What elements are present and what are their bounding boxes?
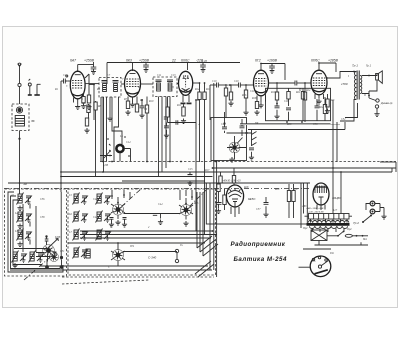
svg-text:22: 22 [171,59,176,63]
wire S2 bottom dashes [62,276,214,278]
svg-text:R23: R23 [329,99,335,102]
wire V1 pins [74,98,83,105]
selenium rectifier row [305,214,353,220]
ground V2 cathode [130,102,135,107]
resistor R16 [243,85,248,115]
wire diag bundle [195,236,218,277]
svg-text:+250В: +250В [139,59,150,63]
wire V4 pins [257,96,266,103]
svg-text:R4: R4 [96,88,101,91]
resistor R24 [299,83,307,122]
contact ticks rotor A [111,204,125,213]
wire volume to AF verticals [213,83,215,270]
resistor R5 [84,118,89,133]
wire B+ down right [333,100,337,168]
resistor R4 [87,104,90,118]
svg-text:Тр 2: Тр 2 [353,221,359,225]
resistor R15 [229,85,232,100]
coil group L3 (left col 3) [17,229,33,241]
chassis bar jack 1 [28,94,32,96]
coil group L9 [96,193,112,205]
capacitor C36 [216,203,222,214]
wire bus lower 2 [80,234,216,236]
svg-text:R20: R20 [286,123,292,126]
svg-text:Пр2: Пр2 [346,228,352,231]
mech link S2a [122,189,142,207]
resistor R26b [232,168,235,186]
wire bus lower 1 [80,230,213,232]
capacitor S2a sub 1 [109,218,114,228]
wire right edge vertical [380,162,396,172]
svg-text:C28: C28 [284,100,289,103]
svg-text:I: I [347,75,349,78]
IF transformer T2 can (dashed) [153,77,177,97]
ground speaker terminals [374,112,379,117]
svg-text:R13: R13 [205,88,211,91]
wire V4 plate [269,82,296,84]
ground R15 [228,101,233,106]
svg-text:ПЧ: ПЧ [129,245,134,248]
switch box bottom [303,248,331,250]
junction dot rotor bottom 1 [45,259,49,269]
svg-text:+250В: +250В [84,59,95,63]
switch tone contacts [249,130,257,160]
svg-text:6Г2: 6Г2 [255,59,261,63]
resistor R14 [224,85,227,118]
ground R2 [81,104,86,109]
capacitor decoupling C27 [269,64,275,74]
resistor R29 [287,184,290,218]
speaker Gr1 [376,71,383,84]
ground volume pot [229,157,234,162]
terminal pickup (2) [175,259,178,262]
ground L3 [17,242,22,247]
svg-text:C32: C32 [341,118,346,121]
title line 1 [231,241,286,248]
svg-text:C31: C31 [60,250,65,253]
svg-text:C44: C44 [158,203,163,206]
svg-text:C22: C22 [221,123,226,126]
wire bottom bus 1 [40,265,208,267]
fuse box [311,230,327,241]
svg-text:L2: L2 [14,212,18,215]
ground V1 cathode [75,104,80,109]
tube V7 30Ц6С rectifier [313,183,329,205]
svg-text:6,3В: 6,3В [103,164,108,167]
wire pickup leads [123,252,177,260]
wire transformer down [340,103,358,121]
wire T1 sec down [107,97,112,121]
left tuning block inner loop [11,196,61,269]
svg-text:Балтика М-254: Балтика М-254 [234,256,287,263]
contact ticks rotor B [179,205,193,214]
tube V6 6Е5С magic eye [226,185,243,207]
coil group L1 (left col 1) [17,193,33,205]
mech link dashes bottom [62,280,149,284]
wire bottom bus 2 [10,269,212,271]
wire plug link [366,204,370,211]
capacitor S2a sub 2 [122,218,127,228]
wire V1 plate right [85,83,99,85]
svg-text:C19: C19 [212,80,217,83]
capacitor C28 [274,104,279,120]
capacitor C23 on rail [187,172,192,186]
capacitor C9 [139,100,144,118]
capacitor decoupling C4 [91,62,97,74]
capacitor C32a [45,235,49,245]
wire volume mid [223,122,251,133]
coil group L11 [96,229,112,241]
AC plug [370,201,387,219]
ground R3 [86,105,91,110]
rail chassis dashed [100,161,396,163]
wire eye pins [231,207,239,217]
svg-text:R10: R10 [148,100,154,103]
svg-text:6А7: 6А7 [70,59,76,63]
mechanical link arrow [24,252,56,280]
svg-text:R5: R5 [81,102,86,105]
label x700 [340,82,348,86]
wire left block links [14,204,48,252]
wire antenna filter down [19,131,21,193]
resistor R20 [287,88,290,106]
label Тр1 [352,64,358,68]
resistor R13 [203,83,206,235]
coil group L8 [73,247,89,259]
wire rotorA feeds [111,190,130,199]
svg-text:R17: R17 [204,169,210,172]
potentiometer R17 volume [227,136,247,160]
junction dot antenna [18,138,20,140]
svg-text:C21: C21 [250,90,255,93]
svg-text:ЗФ: ЗФ [31,119,35,123]
svg-text:6Е5С: 6Е5С [248,197,256,201]
capacitor C28b [286,108,291,121]
rail AVC [61,176,213,178]
ground bar V3 (2) [187,103,192,105]
label +30В [226,181,241,183]
wire osc coil staircase 2 [114,101,119,162]
wire osc section [89,85,94,121]
terminal pickup (1) [175,249,178,252]
rail band-switch upper edge [122,180,205,182]
IF T1 secondary LC [113,81,119,92]
wire AVC long vertical [195,100,197,231]
svg-text:C42: C42 [93,216,98,219]
svg-text:C24: C24 [126,141,131,144]
coil group L2 (left col 2) [17,211,33,223]
left tuning block dashed box [5,189,67,276]
capacitor C29 [315,99,320,121]
wire right bundle verticals [197,192,203,256]
wire V5 plate to transformer [327,72,354,79]
tick marks dial [107,136,130,156]
resistor R12 [198,83,201,162]
wire V2 plate [140,83,153,85]
svg-text:-24В +130В +25В: -24В +130В +25В [306,207,324,210]
left tuning block inner loop 2 [13,200,42,265]
resistor R19 [275,83,278,104]
wire V3 pins down [183,95,189,102]
wire double line below tone box [240,124,340,126]
svg-text:Вк1: Вк1 [363,238,368,241]
switch plug blade [362,215,372,224]
label Тр2 [353,221,359,225]
IF T2 primary LC [156,80,162,91]
wire speaker return [369,81,377,99]
svg-text:Сд: Сд [330,251,334,255]
switch wafer S2a [113,197,124,219]
svg-text:КПЕ: КПЕ [54,236,61,239]
svg-text:А1: А1 [10,194,15,197]
junction dot rotor bottom 2 [60,256,64,269]
label +250В (2) [139,59,150,63]
resistor R21 [301,88,304,120]
svg-text:C13: C13 [171,74,176,77]
tube V4 6Г2 AF preamp [254,70,269,96]
tube V3 6Х6С detector [179,71,193,95]
resistor R27 [217,184,220,203]
capacitor C30 coupling [295,81,311,86]
svg-text:Гр 1: Гр 1 [366,64,371,68]
capacitor C16 [164,123,169,139]
label 6Х6С [181,59,190,63]
svg-text:+285В: +285В [328,59,339,63]
jack Гн2 bracket [37,84,41,94]
svg-text:R14: R14 [226,84,232,87]
oscillator coil L0 core [116,145,123,152]
svg-text:Д: Д [171,86,174,89]
resistor R3 [87,95,90,103]
label 30Ц6С [332,196,342,200]
svg-text:+160В: +160В [267,59,278,63]
resistor R10 [145,97,148,163]
resistor R23 cathode [325,94,330,114]
svg-text:C37: C37 [256,208,261,211]
tone control box [266,88,331,120]
resistor R26a [219,172,222,183]
capacitor C21 [222,112,227,133]
capacitor decoupling C12 [143,63,149,73]
wire T1 to V2 [121,83,125,85]
switch wafer S2b [181,198,192,220]
svg-text:Тр 1: Тр 1 [352,64,358,68]
wire +285V rail segment 4 [319,63,336,72]
svg-text:C38: C38 [40,216,45,219]
label Сд [330,251,334,255]
label 6П6С [311,59,320,63]
svg-text:127: 127 [333,209,338,212]
svg-text:ТВ: ТВ [245,132,248,135]
resistor R30 [292,184,295,218]
wire bias net [168,123,201,130]
coil group L4b bottom [29,251,45,263]
wire dial verticals [101,101,107,172]
resistor R18 [255,102,258,109]
wire V2 pins [128,97,137,105]
middle block dashed box [68,189,216,275]
wire rotor feeds left [36,249,50,257]
variable capacitor C31 rotor [43,245,59,262]
tiny component labels layer [10,60,368,269]
capacitor C33 [153,214,163,225]
resistor R11b [166,97,169,123]
IF transformer T1 can (dashed) [99,78,121,98]
svg-text:Пр1: Пр1 [302,227,308,230]
svg-text:Динам.гр: Динам.гр [380,101,393,105]
wire NFB below tone box [240,123,331,125]
label 6К3 [126,59,132,63]
svg-text:R22: R22 [318,106,324,109]
capacitor C22 [240,119,245,136]
svg-text:L6: L6 [68,213,72,216]
ground bar V3 (1) [181,103,186,105]
capacitor C14 [164,117,167,119]
wire osc coil staircase 1 [112,101,122,144]
wire mains lower [315,242,369,245]
capacitor C37 [263,197,268,217]
switch mains blade [337,231,344,237]
wire left block stubs [30,204,48,262]
svg-text:II: II [363,94,366,97]
svg-text:R7: R7 [123,98,128,101]
svg-text:C36: C36 [40,198,45,201]
svg-text:R26: R26 [193,202,199,205]
coil group L10 [96,211,112,223]
svg-text:R24: R24 [305,89,311,92]
junction dot speaker [368,95,370,97]
tube V2 6К3 IF amplifier [125,70,141,97]
svg-text:R6: R6 [97,105,102,108]
resistor R2 [82,94,85,104]
label Динам гр [380,101,393,105]
tube V5 6П6С output [311,70,327,95]
svg-text:6Х6С: 6Х6С [181,59,190,63]
coil group L6 [73,211,89,223]
svg-text:C25: C25 [188,168,193,171]
label 6Е5С [248,197,256,201]
label 6Г2 [255,59,261,63]
label +285В [328,59,339,63]
svg-text:L7: L7 [68,231,72,234]
wire T2 out [177,83,179,85]
svg-text:6К3: 6К3 [126,59,132,63]
left tuning block outer loop [8,192,63,272]
antenna A1 [18,63,22,66]
wire rect pins [317,205,325,211]
svg-text:R28: R28 [243,186,249,189]
capacitor C15 [176,120,178,124]
terminal Динам гр (1) [369,98,379,102]
ground S2a [115,220,120,225]
ground V4 [258,103,263,108]
svg-text:C40: C40 [93,198,98,201]
wire bus lower 3 [80,237,211,239]
svg-text:L5: L5 [119,135,123,138]
wire T2 verticals down [158,97,160,178]
wire power section verticals [332,168,334,214]
label +160В [267,59,278,63]
ground L4 [12,263,17,268]
svg-text:+110 +130 5,6В: +110 +130 5,6В [308,212,324,214]
svg-text:Радиоприемник: Радиоприемник [231,241,286,248]
svg-text:6П6С: 6П6С [311,59,320,63]
rail B+ mid [61,168,392,172]
resistor R6 [94,101,97,177]
title line 2 [234,256,287,263]
svg-text:R16: R16 [241,94,247,97]
ground R18 [254,110,259,115]
arrow tuning link [48,239,59,249]
label +250В (1) [84,59,95,63]
resistor R22 [323,97,326,121]
wire fuse taps [313,229,325,246]
wire T1 down [102,97,104,162]
svg-text:C20: C20 [234,80,239,83]
coil rect L8b [86,249,90,258]
wire V5 pins [315,94,324,99]
tuning indicator box [206,183,307,224]
wire antenna lead-in [19,66,21,83]
rail band-switch shaft (dash-dot) [4,188,310,190]
resistor R7 [126,101,129,109]
wire V1 screen [85,74,89,95]
wire detector node [193,82,200,84]
tube V1 6А7 converter [70,71,85,99]
svg-text:R29: R29 [274,188,280,191]
wire +250V rail segment 3 [261,64,285,81]
ground L1 [17,206,22,211]
transformer T3 output [354,71,362,104]
capacitor decoupling C18 [200,63,206,73]
svg-text:R11: R11 [176,104,182,107]
label АФ [23,183,27,186]
junction dots layer [19,62,370,244]
coil group L5 [73,193,89,205]
transformer T4 power [307,219,350,232]
svg-text:ВК: ВК [255,122,259,125]
wire +250V rail segment 2 [107,63,240,85]
ground L2 [17,224,22,229]
contact ticks rotor C [111,251,125,260]
wire +250V rail segment 1 [78,65,94,73]
svg-text:R12: R12 [194,88,200,91]
rail top of switch section [8,182,310,184]
ground R7 [125,110,130,115]
wire osc coil stubs [100,149,131,162]
svg-text:L3: L3 [14,230,18,233]
resistor R8 [135,104,138,112]
filter box dashed (antenna filter) [12,104,35,131]
svg-text:АБС: АБС [301,205,307,208]
chassis bar jack 2 [34,94,39,96]
svg-text:R30: R30 [292,188,298,191]
label rectifier row [306,207,324,214]
wire V1 grid left [61,81,70,260]
capacitor C20 coupling [230,83,254,88]
switch wafer S2c [113,243,124,266]
svg-text:Гн: Гн [179,244,183,247]
wire antenna into block [19,192,21,194]
svg-text:х700: х700 [340,82,348,86]
svg-text:L5: L5 [68,194,72,197]
wire S2a-S2b link [124,213,181,215]
coil group L4a bottom [12,251,28,263]
label 6А7 [70,59,76,63]
label С-340 [148,256,157,260]
wire antenna to filter [19,87,21,104]
volume control box [211,118,247,161]
